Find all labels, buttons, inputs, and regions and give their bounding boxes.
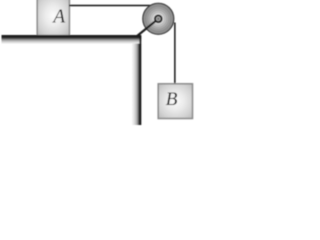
block B <box>158 84 192 119</box>
table top surface (shaded band) <box>2 35 142 44</box>
pulley hub ring <box>155 15 162 22</box>
svg-text:B: B <box>166 89 178 110</box>
pulley groove rings <box>146 6 171 31</box>
block A <box>37 0 69 36</box>
svg-text:A: A <box>51 6 65 27</box>
table edge line (vertical) <box>139 36 141 125</box>
string A to pulley <box>69 5 154 7</box>
table vertical face (shaded band) <box>132 35 141 125</box>
pulley bracket strut <box>137 19 159 37</box>
pulley wheel <box>143 3 174 34</box>
string pulley to B <box>174 23 176 86</box>
pulley axle dot <box>158 18 160 20</box>
